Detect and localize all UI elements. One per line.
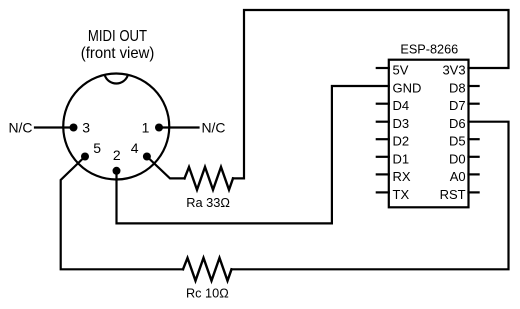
pin D6 (449, 116, 466, 131)
wire: resistor Rc to ESP-8266 D6 (232, 122, 509, 270)
pin TX (377, 187, 410, 202)
pin 3V3 (442, 63, 465, 78)
pin 1 (155, 124, 163, 132)
svg-text:N/C: N/C (202, 120, 226, 136)
svg-text:D5: D5 (449, 134, 466, 149)
svg-text:A0: A0 (450, 169, 466, 184)
wire: N/C left to pin 3 (35, 126, 74, 128)
svg-text:D7: D7 (449, 98, 466, 113)
pin RST (440, 187, 479, 202)
pin D7 (449, 98, 479, 113)
svg-text:D0: D0 (449, 151, 466, 166)
svg-text:RST: RST (440, 187, 466, 202)
wire: pin 5 to resistor Rc (61, 157, 183, 270)
svg-text:TX: TX (393, 187, 410, 202)
wire: pin 4 to resistor Ra (147, 157, 185, 179)
resistor Rc (183, 258, 232, 281)
svg-text:3: 3 (82, 120, 90, 136)
svg-text:4: 4 (131, 140, 139, 156)
pin D4 (377, 98, 409, 113)
connector J1 index notch (105, 75, 128, 83)
svg-text:D4: D4 (393, 98, 410, 113)
svg-text:D1: D1 (393, 151, 410, 166)
svg-text:(front view): (front view) (81, 45, 155, 62)
svg-text:1: 1 (142, 120, 150, 136)
svg-text:MIDI OUT: MIDI OUT (88, 28, 147, 45)
svg-text:D6: D6 (449, 116, 466, 131)
svg-text:5V: 5V (393, 63, 409, 78)
pin D1 (377, 151, 409, 166)
svg-text:D8: D8 (449, 81, 466, 96)
wire: pin 1 to N/C right (159, 126, 199, 128)
svg-text:D2: D2 (393, 134, 410, 149)
pin 5 (81, 153, 89, 161)
svg-text:2: 2 (113, 147, 121, 163)
wire: ESP-8266 GND to pin 2 (117, 86, 389, 223)
pin RX (377, 169, 411, 184)
connector J1 MIDI OUT DIN-5 body (63, 74, 169, 180)
pin 4 (143, 153, 151, 161)
pin 5V (377, 63, 409, 78)
pin A0 (450, 169, 479, 184)
svg-text:Rc 10Ω: Rc 10Ω (186, 286, 229, 301)
pin D3 (377, 116, 409, 131)
svg-text:5: 5 (93, 140, 101, 156)
pin D8 (449, 81, 479, 96)
resistor Ra (185, 167, 234, 190)
svg-text:N/C: N/C (9, 120, 33, 136)
pin GND (393, 81, 422, 96)
pin D2 (377, 134, 409, 149)
pin D0 (449, 151, 479, 166)
pin 3 (70, 124, 78, 132)
IC U1 ESP-8266 outline (389, 60, 469, 208)
svg-text:GND: GND (393, 81, 422, 96)
svg-text:Ra 33Ω: Ra 33Ω (186, 195, 230, 210)
wire: resistor Ra to ESP-8266 3V3 (233, 10, 509, 178)
svg-text:D3: D3 (393, 116, 410, 131)
pin D5 (449, 134, 479, 149)
svg-text:RX: RX (393, 169, 411, 184)
pin 2 (113, 167, 121, 175)
svg-text:ESP-8266: ESP-8266 (400, 41, 458, 56)
svg-text:3V3: 3V3 (442, 63, 465, 78)
